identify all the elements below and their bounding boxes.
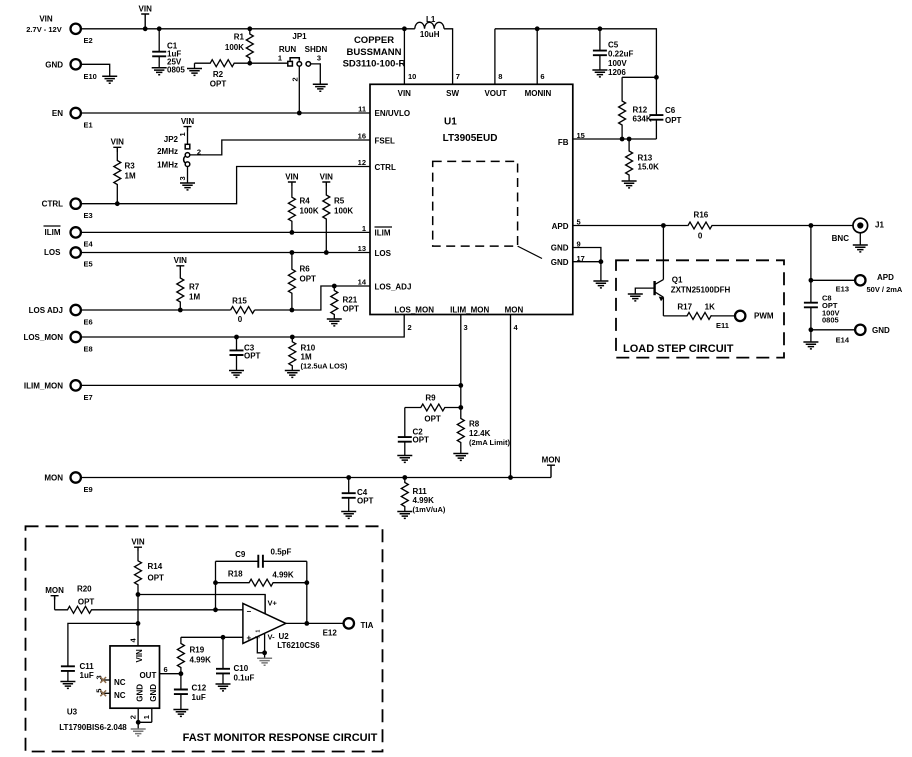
svg-text:OPT: OPT bbox=[424, 414, 441, 423]
junction R21 pin14 bbox=[332, 284, 337, 289]
ground for C8 bbox=[803, 342, 818, 349]
svg-text:E3: E3 bbox=[84, 211, 93, 220]
junction R18 left bbox=[213, 580, 218, 585]
svg-text:3: 3 bbox=[464, 323, 468, 332]
resistor R19 bbox=[177, 637, 211, 673]
svg-text:OPT: OPT bbox=[343, 305, 360, 314]
junction C1 tap bbox=[157, 26, 162, 31]
svg-text:OPT: OPT bbox=[210, 80, 227, 89]
U1 pin 12 CTRL bbox=[358, 158, 396, 172]
svg-text:4.99K: 4.99K bbox=[272, 571, 294, 580]
junction R10 bbox=[290, 335, 295, 340]
terminal E8 (LOS_MON) bbox=[23, 332, 92, 354]
svg-text:(12.5uA LOS): (12.5uA LOS) bbox=[301, 362, 348, 371]
wire ILIM_MON to pin 3 bbox=[81, 384, 461, 386]
resistor R14 bbox=[135, 551, 165, 595]
svg-text:MON: MON bbox=[45, 586, 64, 595]
svg-text:R9: R9 bbox=[425, 393, 436, 402]
svg-text:LOS: LOS bbox=[375, 249, 392, 258]
capacitor C3 bbox=[230, 337, 261, 371]
svg-text:E8: E8 bbox=[84, 345, 93, 354]
svg-text:16: 16 bbox=[358, 132, 366, 141]
U1 pin 14 LOS_ADJ bbox=[358, 278, 412, 292]
ground for U3 bbox=[131, 729, 146, 736]
svg-text:LT6210CS6: LT6210CS6 bbox=[277, 641, 320, 650]
svg-text:BNC: BNC bbox=[832, 234, 850, 243]
wire EN to pin 11 bbox=[81, 112, 370, 114]
wire LOS_MON to pin 2 bbox=[81, 315, 404, 338]
resistor R16 bbox=[687, 210, 712, 240]
svg-text:LOS_ADJ: LOS_ADJ bbox=[375, 282, 412, 291]
svg-text:VIN: VIN bbox=[135, 649, 144, 663]
junction output feedback bbox=[304, 621, 309, 626]
svg-text:7: 7 bbox=[456, 72, 460, 81]
svg-text:Q1: Q1 bbox=[672, 275, 683, 284]
resistor R10 bbox=[289, 337, 348, 371]
ground for R10 bbox=[285, 371, 300, 378]
svg-text:0: 0 bbox=[698, 232, 703, 241]
svg-text:VIN: VIN bbox=[181, 117, 195, 126]
wire pin 4 down to MON bbox=[510, 315, 512, 478]
wire ILIM to pin 1 bbox=[81, 231, 370, 233]
svg-text:OPT: OPT bbox=[148, 574, 165, 583]
resistor R9 bbox=[405, 393, 461, 423]
resistor R6 bbox=[288, 253, 316, 311]
junction Q1 tap bbox=[661, 223, 666, 228]
wire JP2 pin2 to FSEL bbox=[190, 140, 370, 155]
svg-text:VIN: VIN bbox=[39, 15, 53, 24]
junction R14 V+ rail bbox=[136, 592, 141, 597]
wire R2 left to ground bbox=[194, 63, 196, 68]
svg-text:VIN: VIN bbox=[285, 172, 299, 181]
ground for JP2 bbox=[180, 183, 195, 190]
svg-text:OPT: OPT bbox=[300, 275, 317, 284]
svg-text:C5: C5 bbox=[608, 40, 619, 49]
terminal E6 (LOS ADJ) bbox=[29, 305, 93, 327]
svg-text:GND: GND bbox=[551, 244, 569, 253]
fast monitor circuit box (dashed) bbox=[26, 526, 383, 751]
resistor R13 bbox=[626, 139, 659, 181]
terminal E7 (ILIM_MON) bbox=[24, 380, 93, 402]
terminal E2 (VIN input) bbox=[26, 15, 92, 46]
power flag VIN (JP2) bbox=[181, 117, 195, 131]
svg-text:1M: 1M bbox=[189, 293, 200, 302]
svg-text:E12: E12 bbox=[323, 628, 338, 637]
svg-text:100V: 100V bbox=[608, 59, 627, 68]
svg-text:VIN: VIN bbox=[111, 138, 125, 147]
ground for C2 bbox=[397, 456, 412, 463]
svg-text:CTRL: CTRL bbox=[375, 163, 396, 172]
svg-text:OUT: OUT bbox=[139, 671, 156, 680]
svg-text:NC: NC bbox=[114, 678, 126, 687]
wire pin 17 GND bbox=[573, 262, 601, 281]
svg-text:FSEL: FSEL bbox=[375, 137, 396, 146]
svg-text:E11: E11 bbox=[716, 321, 729, 330]
ground for C4 bbox=[341, 512, 356, 519]
junction R11 bbox=[402, 475, 407, 480]
svg-text:R14: R14 bbox=[148, 562, 163, 571]
wire R16 to J1 bbox=[713, 225, 854, 227]
ground for C12 bbox=[173, 710, 188, 717]
svg-text:R18: R18 bbox=[228, 570, 243, 579]
svg-text:OPT: OPT bbox=[357, 496, 374, 505]
svg-text:1uF: 1uF bbox=[192, 693, 206, 702]
svg-text:V+: V+ bbox=[268, 599, 278, 608]
resistor R20 bbox=[55, 584, 243, 613]
svg-text:0: 0 bbox=[238, 315, 243, 324]
svg-text:5: 5 bbox=[256, 636, 262, 639]
wire to E14 bbox=[811, 329, 855, 331]
svg-text:1K: 1K bbox=[705, 302, 715, 311]
svg-text:BUSSMANN: BUSSMANN bbox=[347, 47, 402, 58]
svg-text:2: 2 bbox=[129, 715, 138, 719]
capacitor C6 bbox=[649, 77, 681, 139]
svg-text:100K: 100K bbox=[300, 207, 319, 216]
svg-text:R8: R8 bbox=[469, 420, 480, 429]
ground for C3 bbox=[229, 371, 244, 378]
svg-text:1206: 1206 bbox=[608, 68, 626, 77]
svg-text:R10: R10 bbox=[301, 344, 316, 353]
wire + input to R19 bbox=[181, 636, 243, 638]
resistor R21 bbox=[331, 286, 359, 319]
load step circuit box (dashed) bbox=[616, 260, 784, 357]
terminal E14 (GND) bbox=[836, 325, 890, 345]
svg-text:SD3110-100-R: SD3110-100-R bbox=[343, 59, 406, 70]
terminal E12 (TIA) bbox=[323, 618, 374, 637]
svg-text:100K: 100K bbox=[334, 207, 353, 216]
svg-text:10: 10 bbox=[408, 72, 416, 81]
svg-text:3: 3 bbox=[178, 176, 187, 180]
svg-text:2: 2 bbox=[291, 77, 300, 81]
terminal E1 (EN) bbox=[52, 108, 93, 130]
svg-text:OPT: OPT bbox=[78, 597, 95, 606]
wire LOS to pin 13 bbox=[81, 252, 370, 254]
wire E10 to ground bbox=[81, 64, 110, 76]
svg-text:ILIM_MON: ILIM_MON bbox=[24, 381, 63, 390]
junction VIN flag bbox=[143, 26, 148, 31]
svg-text:1: 1 bbox=[256, 630, 262, 633]
wire to E13 bbox=[811, 279, 855, 281]
U1 pin 8 VOUT bbox=[484, 29, 506, 98]
terminal E10 (GND) bbox=[45, 59, 97, 81]
junction R6 LOS bbox=[290, 250, 295, 255]
U3 pin 5 NC bbox=[95, 689, 111, 697]
junction R1 bottom / JP1 pin1 bbox=[247, 61, 252, 66]
svg-text:R19: R19 bbox=[190, 645, 205, 654]
ground for J1 bbox=[853, 245, 868, 252]
svg-text:634K: 634K bbox=[633, 114, 652, 123]
resistor R17 bbox=[663, 302, 734, 319]
ground for R13 bbox=[622, 181, 637, 188]
svg-text:C6: C6 bbox=[665, 106, 676, 115]
ground for R8 bbox=[453, 454, 468, 461]
svg-text:VIN: VIN bbox=[398, 89, 412, 98]
svg-text:OPT: OPT bbox=[665, 116, 682, 125]
ground for U2 V- bbox=[257, 658, 272, 665]
svg-text:−: − bbox=[247, 607, 252, 616]
connector J1 BNC bbox=[832, 218, 885, 243]
terminal E5 (LOS) bbox=[44, 247, 93, 268]
junction feedback - input bbox=[213, 607, 218, 612]
wire FB to divider bbox=[573, 138, 657, 140]
power flag VIN (R14) bbox=[131, 538, 145, 551]
wire U3 OUT bbox=[160, 673, 181, 675]
ground for C10 bbox=[216, 684, 231, 691]
U1 pin 1 ILIM bbox=[362, 224, 392, 238]
junction R13 FB bbox=[627, 137, 632, 142]
svg-text:2: 2 bbox=[408, 323, 412, 332]
svg-text:JP2: JP2 bbox=[164, 135, 179, 144]
resistor R15 labels bbox=[232, 297, 247, 325]
junction pin4 MON bbox=[508, 475, 513, 480]
resistor R2 bbox=[195, 60, 250, 89]
wire U2 output to E12 bbox=[286, 622, 344, 624]
svg-text:LT1790BIS6-2.048: LT1790BIS6-2.048 bbox=[59, 723, 127, 732]
svg-text:EN/UVLO: EN/UVLO bbox=[375, 109, 411, 118]
svg-text:R20: R20 bbox=[77, 584, 92, 593]
svg-text:1: 1 bbox=[362, 224, 366, 233]
svg-text:OPT: OPT bbox=[413, 436, 430, 445]
IC U1 LT3905EUD body bbox=[370, 84, 573, 314]
svg-text:U3: U3 bbox=[67, 708, 78, 717]
junction R4 ILIM bbox=[290, 230, 295, 235]
svg-text:1M: 1M bbox=[301, 353, 312, 362]
junction C6 top bbox=[654, 75, 659, 80]
svg-text:E10: E10 bbox=[84, 72, 97, 81]
U1 pin 3 ILIM_MON bbox=[450, 305, 489, 332]
svg-text:6: 6 bbox=[540, 72, 544, 81]
svg-text:R7: R7 bbox=[189, 283, 200, 292]
svg-text:FAST MONITOR RESPONSE CIRCUIT: FAST MONITOR RESPONSE CIRCUIT bbox=[183, 732, 378, 744]
svg-text:1MHz: 1MHz bbox=[157, 160, 178, 169]
U1 pin 4 MON bbox=[505, 305, 524, 332]
junction C11 tap bbox=[136, 621, 141, 626]
svg-text:C10: C10 bbox=[234, 664, 249, 673]
svg-text:R17: R17 bbox=[677, 302, 692, 311]
svg-text:E1: E1 bbox=[84, 121, 93, 130]
svg-text:CTRL: CTRL bbox=[42, 200, 63, 209]
U1 pin 9 GND bbox=[551, 240, 581, 253]
U1 pin 15 FB bbox=[558, 131, 585, 147]
junction C4 bbox=[346, 475, 351, 480]
svg-text:0805: 0805 bbox=[822, 316, 839, 325]
svg-text:10uH: 10uH bbox=[420, 30, 440, 39]
svg-text:ILIM: ILIM bbox=[375, 229, 391, 238]
svg-text:R15: R15 bbox=[232, 297, 247, 306]
svg-text:R4: R4 bbox=[300, 197, 311, 206]
svg-text:1: 1 bbox=[278, 53, 282, 62]
capacitor C10 bbox=[216, 664, 255, 683]
svg-text:OPT: OPT bbox=[244, 352, 261, 361]
terminal E9 (MON) bbox=[44, 472, 92, 494]
ground for E10 bbox=[102, 76, 117, 83]
jumper JP2 bbox=[157, 131, 201, 181]
junction C8 branch bbox=[809, 223, 814, 228]
wire C10 leg bbox=[222, 637, 224, 684]
wire VIN bus from E2 to L1 bbox=[81, 28, 415, 30]
jumper JP1 bbox=[250, 32, 328, 82]
U1 pin 13 LOS bbox=[358, 244, 392, 258]
wire R12/C6 top link bbox=[622, 76, 656, 78]
svg-text:U2: U2 bbox=[279, 632, 290, 641]
resistor R1 bbox=[225, 29, 253, 63]
svg-text:13: 13 bbox=[358, 244, 366, 253]
capacitor C9 bbox=[216, 548, 307, 568]
svg-text:R3: R3 bbox=[125, 162, 136, 171]
svg-text:VOUT: VOUT bbox=[484, 89, 506, 98]
ground for JP1 bbox=[313, 84, 328, 91]
junction R9 R8 bbox=[458, 405, 463, 410]
svg-text:MON: MON bbox=[44, 474, 63, 483]
capacitor C8 bbox=[804, 294, 840, 325]
resistor R3 bbox=[111, 138, 136, 204]
terminal E3 (CTRL) bbox=[42, 199, 93, 221]
junction R18 right bbox=[304, 580, 309, 585]
svg-text:R16: R16 bbox=[694, 210, 709, 219]
resistor R5 bbox=[320, 172, 354, 252]
svg-text:C9: C9 bbox=[235, 550, 246, 559]
svg-text:LT3905EUD: LT3905EUD bbox=[443, 133, 498, 144]
svg-text:TIA: TIA bbox=[361, 621, 374, 630]
svg-text:GND: GND bbox=[45, 60, 63, 69]
ground for U1 GND pins bbox=[593, 281, 608, 288]
svg-text:1uF: 1uF bbox=[80, 671, 94, 680]
svg-text:1: 1 bbox=[178, 132, 187, 136]
svg-text:14: 14 bbox=[358, 278, 367, 287]
svg-text:2MHz: 2MHz bbox=[157, 147, 178, 156]
svg-text:J1: J1 bbox=[875, 221, 884, 230]
wire JP1 pin3 to ground bbox=[311, 64, 321, 84]
wire feedback right leg bbox=[306, 561, 308, 623]
wire MON bus bbox=[81, 477, 551, 479]
svg-text:E14: E14 bbox=[836, 336, 850, 345]
svg-text:15.0K: 15.0K bbox=[638, 163, 660, 172]
svg-text:50V / 2mA: 50V / 2mA bbox=[867, 285, 903, 294]
inductor note COPPER BUSSMANN SD3110-100-R bbox=[343, 35, 406, 70]
svg-text:R1: R1 bbox=[234, 33, 245, 42]
svg-text:R2: R2 bbox=[213, 70, 224, 79]
svg-text:2.7V - 12V: 2.7V - 12V bbox=[26, 25, 61, 34]
resistor R7 bbox=[174, 256, 201, 310]
svg-text:ILIM: ILIM bbox=[45, 228, 61, 237]
svg-text:MON: MON bbox=[505, 305, 524, 314]
capacitor C5 bbox=[593, 29, 634, 77]
junction R7 LOS_ADJ bbox=[178, 308, 183, 313]
svg-text:R11: R11 bbox=[413, 487, 428, 496]
ground for R2 bbox=[187, 69, 202, 76]
svg-text:APD: APD bbox=[877, 273, 894, 282]
wire JP2 pin3 to ground bbox=[187, 167, 189, 184]
terminal E11 (PWM) bbox=[716, 311, 774, 330]
ground for R21 bbox=[327, 319, 342, 326]
junction E14 bbox=[809, 327, 814, 332]
svg-text:LOS ADJ: LOS ADJ bbox=[29, 306, 63, 315]
svg-text:ZXTN25100DFH: ZXTN25100DFH bbox=[671, 286, 731, 295]
junction R19 OUT bbox=[179, 671, 184, 676]
wire to C11 bbox=[68, 623, 138, 681]
capacitor C1 bbox=[152, 29, 185, 75]
junction pin6 VOUT bus bbox=[535, 26, 540, 31]
svg-text:NC: NC bbox=[114, 691, 126, 700]
svg-text:JP1: JP1 bbox=[292, 32, 307, 41]
op-amp U2 LT6210CS6 bbox=[243, 595, 320, 659]
svg-text:R5: R5 bbox=[334, 197, 345, 206]
voltage reference U3 LT1790BIS6-2.048 bbox=[59, 638, 167, 733]
svg-text:PWM: PWM bbox=[754, 311, 774, 320]
terminal E13 (APD out) bbox=[836, 273, 903, 294]
U1 pin 6 MONIN bbox=[525, 29, 552, 98]
svg-text:(1mV/uA): (1mV/uA) bbox=[413, 505, 446, 514]
resistor R4 bbox=[285, 172, 319, 232]
svg-text:LOAD STEP CIRCUIT: LOAD STEP CIRCUIT bbox=[623, 343, 734, 355]
svg-text:R6: R6 bbox=[300, 265, 311, 274]
svg-text:E2: E2 bbox=[84, 36, 93, 45]
capacitor C12 bbox=[174, 674, 207, 710]
svg-text:100K: 100K bbox=[225, 43, 244, 52]
U1 pin 5 APD bbox=[552, 218, 581, 231]
svg-text:E13: E13 bbox=[836, 285, 849, 294]
junction EN JP1 bbox=[297, 111, 302, 116]
ground for R11 bbox=[397, 512, 412, 519]
svg-text:VIN: VIN bbox=[131, 538, 145, 547]
svg-text:12.4K: 12.4K bbox=[469, 429, 491, 438]
junction R12 FB bbox=[620, 137, 625, 142]
svg-text:E5: E5 bbox=[84, 260, 93, 269]
svg-text:R13: R13 bbox=[638, 154, 653, 163]
wire CTRL to pin 12 bbox=[81, 167, 370, 204]
junction pin10 VIN bus bbox=[402, 26, 407, 31]
svg-text:4.99K: 4.99K bbox=[190, 655, 212, 664]
wire APD from pin 5 bbox=[573, 225, 688, 227]
terminal E4 (ILIM) bbox=[44, 226, 94, 249]
transistor Q1 ZXTN25100DFH bbox=[635, 226, 730, 316]
U1 pin 7 SW bbox=[444, 29, 460, 98]
svg-text:0.5pF: 0.5pF bbox=[271, 548, 292, 557]
ground for C5 bbox=[592, 70, 607, 77]
junction ILIM_MON pin3 bbox=[458, 383, 463, 388]
svg-text:MON: MON bbox=[542, 456, 561, 465]
wire pin 9 GND bbox=[573, 248, 601, 262]
U1 pin 10 VIN bbox=[398, 29, 417, 98]
svg-text:6: 6 bbox=[164, 665, 168, 674]
svg-text:1: 1 bbox=[142, 715, 151, 719]
U1 pin 16 FSEL bbox=[358, 132, 395, 146]
svg-text:E9: E9 bbox=[84, 485, 93, 494]
svg-text:VIN: VIN bbox=[139, 4, 153, 13]
resistor R8 bbox=[457, 408, 510, 454]
junction R3 CTRL bbox=[115, 201, 120, 206]
svg-text:3: 3 bbox=[317, 53, 321, 62]
svg-text:SW: SW bbox=[446, 89, 459, 98]
junction C3 bbox=[234, 335, 239, 340]
junction C5 bbox=[598, 26, 603, 31]
svg-text:R21: R21 bbox=[343, 296, 358, 305]
svg-text:+: + bbox=[247, 634, 252, 643]
power flag VIN (top) bbox=[139, 4, 153, 28]
capacitor C2 bbox=[398, 408, 429, 456]
U1 pin 11 EN/UVLO bbox=[358, 105, 410, 119]
svg-text:(2mA Limit): (2mA Limit) bbox=[469, 438, 510, 447]
ground for C1 bbox=[152, 68, 167, 75]
svg-text:GND: GND bbox=[872, 326, 890, 335]
svg-text:12: 12 bbox=[358, 158, 366, 167]
svg-text:R12: R12 bbox=[633, 106, 648, 115]
ground for C11 bbox=[60, 682, 75, 689]
wire R14 down to U3 bbox=[137, 595, 139, 646]
svg-text:LOS_MON: LOS_MON bbox=[394, 305, 434, 314]
inductor L1 bbox=[415, 15, 444, 39]
resistor R11 bbox=[401, 478, 446, 515]
